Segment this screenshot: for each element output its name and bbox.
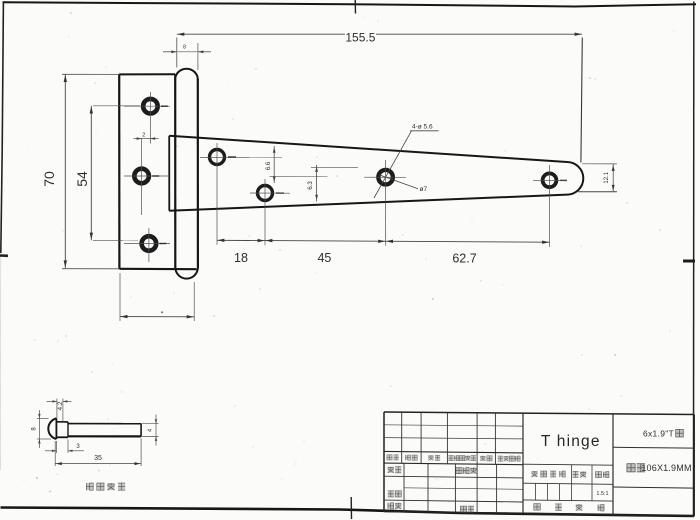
- plate width dim line: [120, 316, 194, 318]
- title block left section row lines: [384, 425, 523, 426]
- strap top edge: [169, 136, 567, 162]
- stage-mark row dividers: [571, 465, 573, 484]
- title block revision row labels (Chinese): [387, 455, 392, 460]
- hinge leaf plate outline: [119, 73, 175, 75]
- plate hole P2: [134, 169, 149, 184]
- pin caption (Chinese): [86, 483, 93, 490]
- hinge barrel (knuckle): [174, 79, 176, 268]
- strap hole S3 extension to dim line: [385, 196, 387, 246]
- svg-text:2: 2: [142, 132, 145, 138]
- svg-text:8: 8: [183, 45, 186, 51]
- strap bottom edge: [169, 195, 567, 211]
- svg-text:4-ø 5.6: 4-ø 5.6: [412, 124, 433, 131]
- strap hole S4 extension to dim line: [549, 196, 551, 247]
- strap hole S3 with leader target: [378, 170, 393, 185]
- leader d7 from hole S3: [379, 175, 418, 189]
- barrel width right extension: [197, 43, 199, 70]
- barrel top dome: [175, 69, 198, 80]
- plate top extension line: [62, 73, 119, 75]
- svg-text:70: 70: [41, 171, 57, 187]
- pin neck: [56, 421, 68, 423]
- title block designer row labels: [388, 467, 394, 473]
- strap rounded tip: [567, 162, 583, 195]
- svg-text:T hinge: T hinge: [541, 433, 601, 450]
- title block signature column lines: [403, 463, 405, 511]
- svg-text:62.7: 62.7: [452, 251, 476, 265]
- pin dim 4.2: [56, 399, 58, 419]
- fold tick bottom: [350, 497, 352, 519]
- dim 70 line: [64, 74, 66, 268]
- svg-text:45: 45: [317, 251, 331, 265]
- strap hole S1: [210, 150, 225, 165]
- dim 6.6 near hole S1: [273, 146, 275, 183]
- pin head dome: [48, 418, 56, 439]
- svg-text:1.5:1: 1.5:1: [596, 491, 608, 497]
- fold tick top: [354, 0, 356, 14]
- title block outer frame: [384, 412, 694, 415]
- plate hole P1: [143, 99, 158, 114]
- title block checker row label: [388, 491, 394, 497]
- svg-text:155.5: 155.5: [345, 30, 375, 44]
- dim 155.5 line: [177, 33, 345, 35]
- plate width dim extensions: [119, 273, 121, 321]
- strap hole S4: [543, 173, 557, 187]
- svg-text:6.6: 6.6: [266, 161, 272, 170]
- sheet border top: [3, 2, 697, 6]
- title block revision column lines: [401, 412, 403, 463]
- dim 155.5 right extension down to strap tip: [581, 38, 582, 163]
- sheet border bottom: [1, 508, 695, 517]
- weight label: [573, 471, 579, 477]
- fold tick left: [0, 254, 8, 257]
- scan specks: [36, 477, 38, 479]
- dim 54 line: [90, 106, 92, 241]
- right block divider lines: [613, 446, 694, 449]
- svg-text:4.2: 4.2: [57, 401, 64, 410]
- pin shank: [68, 423, 141, 425]
- chained dim line 18-45-62.7: [217, 240, 550, 242]
- scale label: [596, 472, 602, 478]
- svg-text:6.3: 6.3: [308, 181, 314, 190]
- sheet border right: [693, 2, 695, 518]
- svg-text:18: 18: [234, 251, 248, 265]
- strap left edge over barrel: [168, 136, 170, 211]
- sheet count row (Chinese): [534, 504, 541, 511]
- dim 12.1 line with inside arrows: [612, 164, 614, 192]
- svg-text:54: 54: [74, 171, 90, 187]
- strap hole S2 extension to dim line: [264, 207, 266, 245]
- plate bottom extension line: [62, 268, 119, 270]
- pin head flat side: [55, 418, 57, 439]
- stage mark small boxes: [535, 483, 537, 500]
- sheet border left: [1, 2, 4, 253]
- dim 155.5 left extension: [176, 38, 178, 68]
- barrel width dim with outside arrows: [163, 51, 177, 53]
- dim 12.1 extensions: [582, 163, 617, 165]
- svg-text:12.1: 12.1: [604, 171, 610, 183]
- pin dim 3 (neck len): [55, 441, 57, 453]
- stage mark label (Chinese): [532, 471, 538, 477]
- pin dim 8: [37, 417, 49, 419]
- plate hole P3: [142, 236, 157, 251]
- strap hole S2: [258, 186, 273, 201]
- pin dim 4 (shank dia): [141, 423, 158, 425]
- pin dim 35: [54, 441, 56, 466]
- fold tick right: [683, 260, 695, 263]
- barrel bottom dome: [175, 267, 198, 278]
- title block middle/left divider: [522, 413, 524, 513]
- svg-text:4: 4: [147, 429, 153, 432]
- dim 6.3 near hole S3: [316, 165, 318, 202]
- tiny offset dim 2 between plate hole centerlines: [134, 138, 159, 140]
- title block process row labels: [388, 503, 394, 509]
- dim 54 extensions to hole centers: [93, 105, 140, 107]
- svg-text:6x1.9"T: 6x1.9"T: [643, 429, 674, 439]
- material text 106X1.9MM: [627, 464, 635, 472]
- leader 4-d5.6 to hole S3: [374, 131, 412, 198]
- strap hole S1 extension to dim line: [216, 172, 218, 245]
- svg-text:ø7: ø7: [420, 186, 428, 193]
- title block middle/right divider: [612, 414, 614, 515]
- svg-text:106X1.9MM: 106X1.9MM: [641, 463, 691, 473]
- title block middle rows: [523, 464, 613, 465]
- scan noise: [228, 82, 229, 83]
- svg-text:35: 35: [94, 455, 102, 462]
